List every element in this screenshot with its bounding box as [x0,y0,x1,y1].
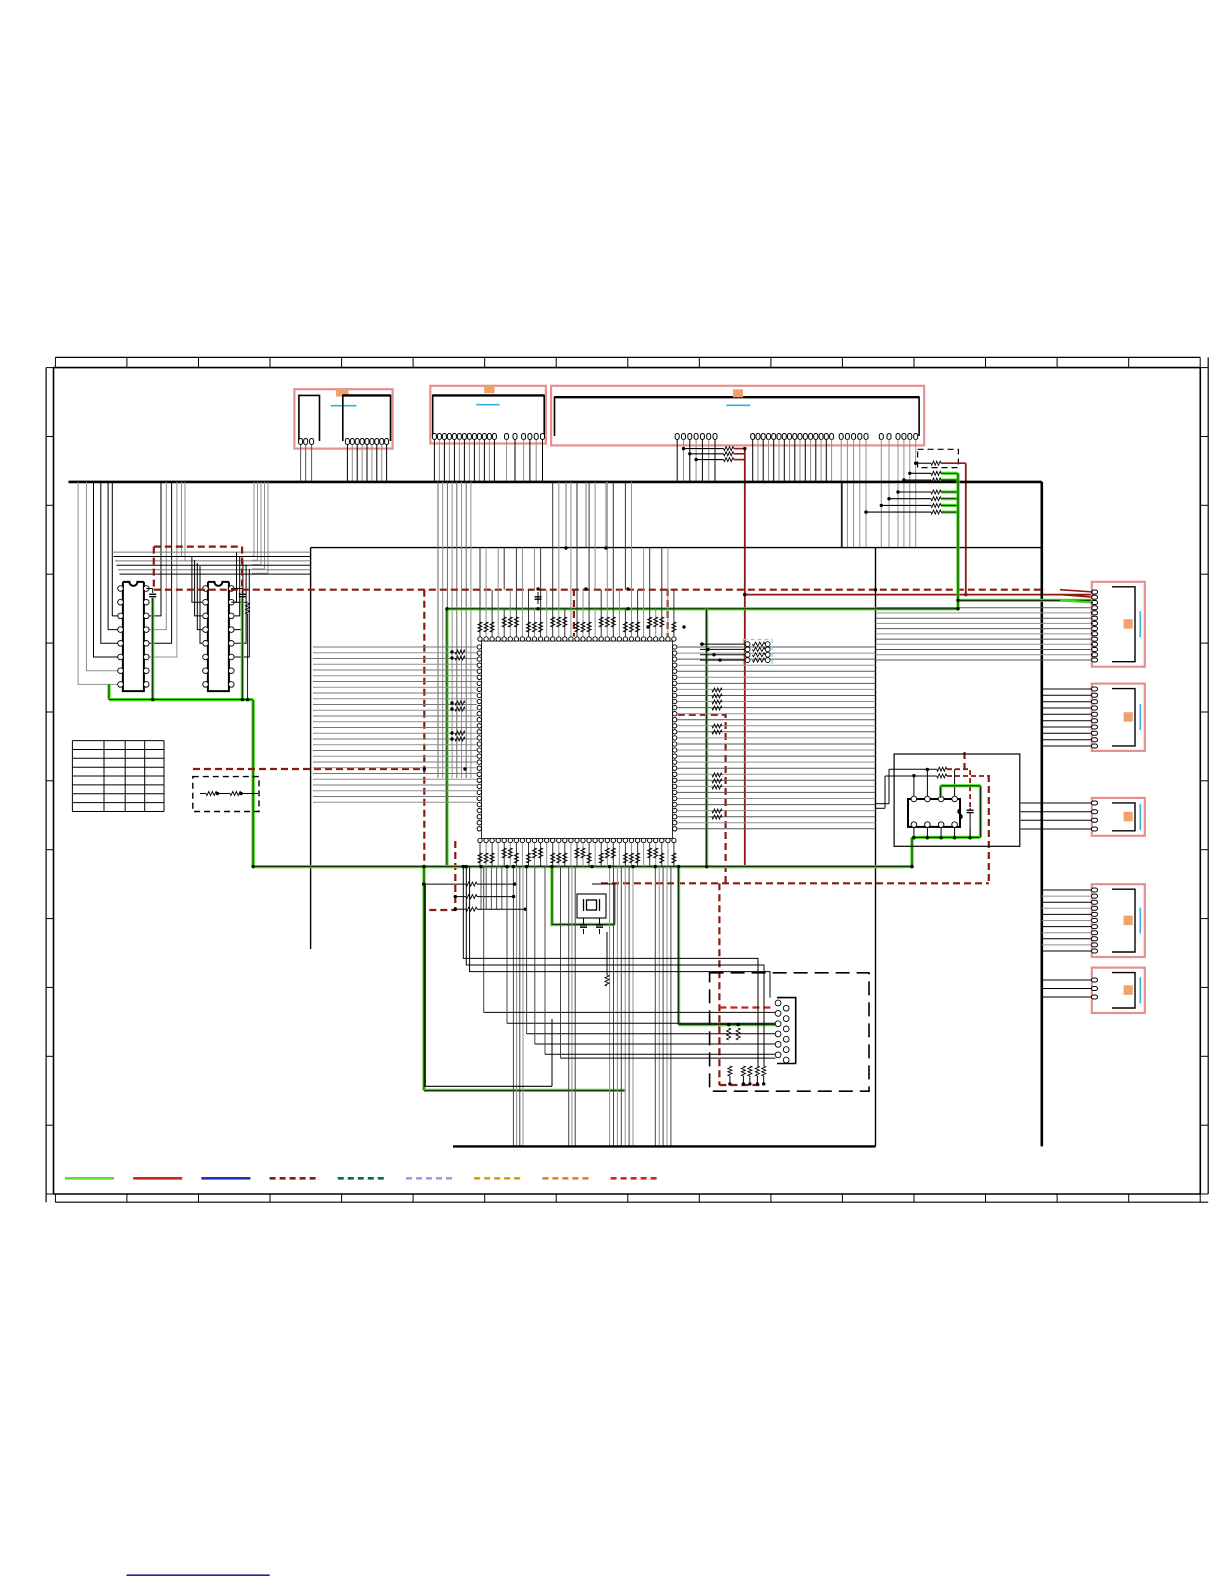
legend line 7 [474,1177,523,1180]
wire bundle left D (QFP left feed) [438,482,471,778]
legend line 2 [133,1177,182,1180]
connector CN7 [1092,884,1145,957]
connector CN6 [1092,798,1145,836]
wires CN1 to bus [301,445,387,482]
legend line 8 [542,1177,591,1180]
wires CN9 [463,867,775,1066]
wires U4 pins [912,768,972,840]
connector CN9 (dashed outline) [710,973,869,1091]
capacitor C6 [967,808,974,838]
connector CN1 [294,389,392,448]
resistor array RA4 [422,882,527,911]
wires CN2 to bus [434,440,542,482]
wire bundle QFP left [313,647,477,802]
connector CN2 [430,386,546,444]
IC U2 (DIP16) [118,582,149,691]
IC U3 (DIP16) [203,582,234,691]
crystal X1 [577,884,615,925]
bus wire main horizontal [69,482,1042,1147]
wire green net DIP [109,598,253,867]
IC U1 (QFP132) [477,637,677,843]
resistor network RN1 (dashed box) [193,777,259,812]
wire bundle QFP top [478,482,676,637]
bus wire bottom [453,1145,876,1147]
wires CN8 [1042,980,1092,997]
capacitor C1 [146,589,156,597]
legend line 1 [65,1177,114,1180]
resistor R5 [231,602,249,699]
footer note underline [127,1574,270,1576]
junction dots [251,447,959,868]
wire black L-path [425,884,552,1086]
wire bundle QFP right [677,647,875,829]
wire bundle QFP bottom [478,843,676,1146]
resistor array RA3 (pullup block) [700,640,772,666]
wire green net main [253,473,1093,1090]
connector CN4 [1092,582,1145,667]
wire maroon net [743,449,1094,867]
resistor R20 [605,932,609,986]
wire bundle left B (to U2 right pins) [150,482,186,657]
bus dashed maroon P3 [574,589,989,1085]
wires CN4 [1092,592,1094,660]
wire bundle left C (to U3) [252,482,268,573]
bus dashed maroon P1 [154,547,1045,590]
wire wrap nets above DIPs [112,552,311,657]
capacitor C3 [535,592,542,604]
legend line 9 [611,1177,660,1180]
wires CN3 to bus [677,440,916,548]
resistor R22 [876,774,989,808]
wire bundle left A (to U2 left pins) [78,482,117,685]
wire bundle CN4 feed [876,590,1094,660]
connector CN5 [1092,684,1145,751]
bus dashed maroon P2 [193,590,455,910]
resistor array RA1 [682,447,745,462]
legend line 5 [338,1177,387,1180]
wires CN5 [1042,689,1092,746]
wire box top y548 [311,482,1042,1147]
wires CN6 [1021,803,1092,829]
legend line 6 [406,1177,455,1180]
IC U4 (8-pin) [908,796,962,827]
wire green net U4 [941,786,981,798]
connector CN3 [551,386,924,446]
legend line 3 [201,1177,250,1180]
capacitor C5 [596,918,603,934]
capacitor C2 [231,589,246,597]
legend line 4 [270,1177,319,1180]
connector CN8 [1092,968,1145,1013]
resistor R21 [876,767,971,808]
capacitor C4 [580,918,587,934]
resistor array RA5 [727,1023,766,1086]
resistor array RA2 [864,449,966,514]
IC U4 box [894,754,1020,846]
pin function table [72,741,164,812]
wires CN7 [1042,890,1092,951]
